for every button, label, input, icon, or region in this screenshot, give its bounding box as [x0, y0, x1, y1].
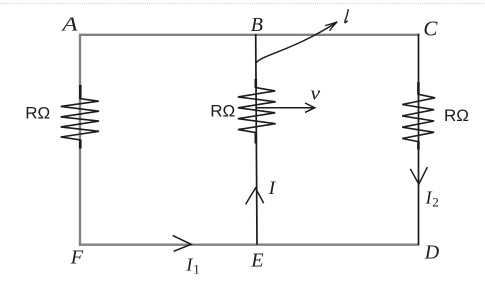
svg-text:D: D: [424, 241, 440, 263]
svg-text:F: F: [70, 246, 84, 268]
wire middle B-E: [256, 34, 257, 245]
svg-text:RΩ: RΩ: [210, 102, 235, 121]
resistor R3 (right branch): [402, 82, 435, 150]
svg-text:A: A: [60, 13, 78, 35]
svg-text:2: 2: [432, 195, 439, 210]
svg-text:1: 1: [193, 261, 200, 276]
svg-text:v: v: [310, 84, 321, 104]
wire top A-C: [79, 34, 419, 36]
resistor R1 (left branch): [61, 85, 99, 149]
svg-text:RΩ: RΩ: [25, 103, 50, 122]
label l: [345, 9, 349, 23]
svg-text:E: E: [250, 249, 263, 271]
current arrow I2 (right branch, downward): [410, 167, 427, 184]
wire left A-F: [79, 34, 81, 246]
current arrow I (middle branch, upward): [246, 188, 264, 204]
velocity arrow v: [256, 103, 315, 112]
svg-text:C: C: [423, 17, 438, 41]
current arrow I1 (bottom wire, rightward): [173, 235, 192, 251]
resistor R2 (middle branch): [238, 79, 276, 144]
wire bottom F-D: [79, 243, 419, 245]
wire right C-D: [418, 34, 420, 245]
svg-text:I: I: [185, 254, 193, 274]
svg-text:B: B: [251, 14, 263, 36]
svg-text:RΩ: RΩ: [444, 106, 469, 125]
current arrow l (curved, leaving node B): [256, 22, 337, 63]
